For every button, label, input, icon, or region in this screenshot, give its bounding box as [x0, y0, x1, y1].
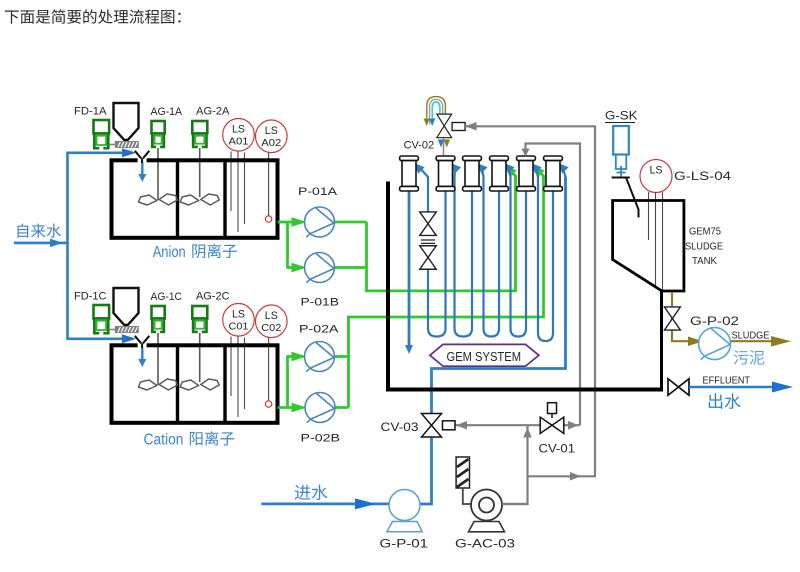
svg-text:LS: LS: [265, 125, 278, 137]
level switch instrument LS A02: [255, 120, 287, 153]
motor AG-1C: [152, 306, 165, 332]
pipe: effluent discharge: [689, 386, 772, 388]
label: cation (CN): [190, 431, 234, 445]
svg-text:LS: LS: [232, 123, 245, 135]
instrument dip lines LS C01: [231, 337, 245, 418]
pump P-02B: [305, 393, 335, 423]
svg-text:G-AC-03: G-AC-03: [455, 537, 515, 551]
svg-text:CV-03: CV-03: [381, 422, 419, 434]
membrane column 2: [436, 156, 455, 191]
pipe green anion suction: [278, 177, 516, 291]
pipe riser from column 6 top: [563, 167, 566, 329]
agitator shaft AG-1A: [157, 148, 159, 200]
pipe: blower discharge: [502, 503, 529, 505]
pipe: sludge discharge: [731, 340, 773, 342]
svg-text:C01: C01: [229, 320, 249, 332]
pipe riser from column 5 top: [536, 167, 539, 329]
green arrow into column 4: [509, 170, 516, 180]
svg-text:AG-1C: AG-1C: [151, 291, 183, 303]
olive arrow down at gooseneck outlet: [424, 119, 430, 127]
level switch instrument LS C02: [255, 305, 287, 338]
inlet funnel Cation: [138, 342, 147, 348]
svg-text:GEM SYSTEM: GEM SYSTEM: [447, 350, 522, 364]
GEM SYSTEM banner: [430, 344, 539, 366]
blue arrow into column 6: [558, 163, 569, 174]
svg-text:Anion: Anion: [153, 244, 186, 261]
valve isolation valve lower: [420, 246, 437, 270]
motor FD-1A: [94, 120, 110, 148]
inlet funnel Anion: [138, 157, 147, 163]
svg-text:G-LS-04: G-LS-04: [674, 171, 732, 183]
svg-text:P-02B: P-02B: [301, 433, 341, 445]
blower G-AC-03: [471, 490, 502, 521]
blue arrow into column 2: [451, 163, 462, 174]
GEM box bottom edge / effluent header: [386, 388, 663, 392]
instrument dip lines LS A01: [231, 152, 245, 233]
sludge tank GEM75: [613, 201, 684, 292]
blue arrow into column 1: [414, 163, 425, 174]
membrane column 3: [463, 156, 482, 191]
green arrow into pump: [292, 352, 307, 362]
svg-text:AG-2C: AG-2C: [196, 291, 230, 303]
pipe into column 2 below CV-02: [443, 139, 445, 156]
label: influent: [295, 484, 328, 500]
agitator shaft AG-2C: [199, 333, 201, 382]
U-bend 3: [484, 191, 500, 337]
green arrow into pump: [292, 217, 307, 227]
level switch instrument LS A01: [223, 119, 255, 152]
membrane column 6: [544, 156, 563, 191]
level switch instrument LS C01: [223, 304, 255, 337]
svg-text:SLUDGE: SLUDGE: [732, 330, 770, 342]
pipe: raw water inlet: [261, 502, 389, 505]
blue arrow down at gooseneck outlet: [429, 119, 435, 127]
valve effluent valve: [668, 379, 689, 396]
pipe: CV-03 to pump G-P-01: [420, 437, 432, 504]
tank Cation: [112, 345, 278, 423]
label: sludge (CN): [734, 350, 765, 365]
arrow on lower air branch: [570, 472, 581, 481]
air pilot line: CV-02 to riser x595: [465, 126, 595, 476]
pump P-01A: [305, 207, 335, 237]
svg-text:SLUDGE: SLUDGE: [685, 241, 723, 253]
membrane column 1: [400, 156, 419, 191]
screw feeder FD-1A: [109, 144, 115, 146]
screw feeder FD-1C: [109, 329, 115, 331]
outlet node circle C: [265, 401, 271, 407]
svg-text:G-P-01: G-P-01: [380, 537, 429, 551]
green arrow into pump: [292, 263, 307, 273]
pipe: permeate from column 6 to CV-03: [432, 177, 566, 413]
svg-text:P-02A: P-02A: [299, 324, 339, 336]
pump G-P-01 base: [387, 522, 422, 532]
U-bend 4: [511, 191, 527, 337]
agitator blades tank Cation cell2: [180, 379, 219, 390]
arrow into tank Cation: [141, 348, 143, 360]
outlet node circle A: [265, 216, 271, 222]
svg-text:P-01A: P-01A: [298, 186, 338, 198]
gooseneck recirculation arcs: [427, 97, 446, 125]
filter stem: [463, 488, 471, 504]
label: effluent (CN): [709, 393, 741, 409]
pipe green cation suction: [278, 177, 544, 408]
pipe: tank drain (black): [660, 291, 663, 389]
air header to valves: [456, 425, 581, 504]
pipe riser from column 4 top: [509, 167, 511, 329]
green arrow into pump: [292, 403, 307, 413]
U-bend 1: [428, 191, 446, 337]
svg-text:LS: LS: [650, 165, 663, 177]
svg-text:EFFLUENT: EFFLUENT: [703, 375, 751, 387]
hopper FD-1C: [114, 288, 139, 325]
tank Anion: [112, 160, 278, 238]
motor AG-2A: [192, 121, 207, 147]
pipe: anion feed branch: [66, 152, 133, 155]
valve separator lines: [421, 240, 435, 243]
svg-text:TANK: TANK: [692, 255, 717, 267]
valve sludge valve: [664, 307, 680, 330]
pipe: column1 feed drop with arrow: [408, 191, 411, 346]
agitator shaft AG-1C: [157, 333, 159, 385]
title text: brief treatment process flow: [5, 9, 181, 23]
CV-03 actuator: [443, 421, 456, 430]
CV-02 actuator: [452, 123, 465, 131]
svg-text:FD-1A: FD-1A: [74, 106, 107, 118]
svg-text:A01: A01: [229, 135, 249, 147]
valve control valve CV-02: [437, 114, 452, 138]
arrow tap water: [50, 239, 63, 248]
blue arrow into column 4: [504, 163, 515, 174]
pump P-02A: [305, 342, 335, 372]
svg-text:CV-02: CV-02: [404, 140, 435, 152]
svg-text:AG-1A: AG-1A: [151, 106, 183, 118]
U-bend 2: [455, 191, 473, 337]
svg-text:G-P-02: G-P-02: [690, 316, 739, 328]
blue arrow into column 3: [477, 163, 488, 174]
CV-01 actuator: [551, 414, 553, 419]
svg-text:FD-1C: FD-1C: [74, 291, 107, 303]
instrument dip line LS C02: [268, 338, 270, 401]
motor AG-1A: [152, 121, 165, 147]
U-bend 5: [538, 191, 553, 341]
instrument dip line LS A02: [268, 153, 270, 216]
motor AG-2C: [192, 306, 207, 332]
level switch instrument G-LS-04: [640, 160, 672, 193]
svg-text:AG-2A: AG-2A: [196, 106, 230, 118]
air filter: [456, 457, 469, 488]
pipe between twin valves and U1: [427, 270, 429, 327]
LS dip tubes into sludge tank: [649, 192, 663, 330]
valve isolation valve upper: [420, 212, 437, 236]
label: tap water: [18, 223, 62, 237]
pipe: cation feed branch: [66, 337, 133, 340]
pump G-P-01: [389, 490, 420, 521]
pipe: tap water vertical manifold: [66, 153, 69, 339]
pipe riser from column 2 top: [453, 167, 456, 329]
svg-text:C02: C02: [261, 322, 281, 334]
membrane column 5: [517, 156, 536, 191]
svg-text:Cation: Cation: [144, 431, 184, 448]
pump P-01B: [305, 253, 335, 283]
membrane column 4: [490, 156, 509, 191]
blue arrow into column 5: [531, 163, 542, 174]
svg-text:A02: A02: [261, 137, 281, 149]
pipe: sludge line (olive): [672, 292, 700, 341]
agitator blades tank Anion cell1: [139, 194, 178, 205]
svg-text:CV-01: CV-01: [539, 444, 576, 456]
green arrow into column 5: [537, 170, 544, 180]
pipe riser from column 1 top: [419, 167, 429, 213]
pipe: tap water inlet horizontal: [14, 242, 68, 245]
motor FD-1C: [94, 305, 110, 333]
svg-text:LS: LS: [265, 310, 278, 322]
hopper FD-1A: [114, 103, 139, 140]
agitator shaft AG-2A: [199, 148, 201, 197]
agitator blades tank Cation cell1: [139, 379, 178, 390]
G-SK mount into tank: [612, 178, 639, 218]
blower G-AC-03 base: [469, 522, 505, 532]
label: anion (CN): [192, 244, 236, 258]
svg-text:GEM75: GEM75: [689, 226, 721, 238]
GEM box left edge: [386, 182, 390, 392]
valve control valve CV-01: [540, 417, 564, 433]
arrow into tank Anion: [141, 163, 143, 175]
pump G-P-02: [699, 328, 731, 360]
air line into column 5 top: [526, 144, 581, 426]
valve control valve CV-03: [422, 414, 442, 438]
svg-text:LS: LS: [232, 308, 245, 320]
svg-text:P-01B: P-01B: [301, 297, 340, 309]
svg-text:G-SK: G-SK: [605, 111, 638, 123]
pipe riser from column 3 top: [482, 167, 484, 329]
agitator blades tank Anion cell2: [180, 194, 219, 205]
